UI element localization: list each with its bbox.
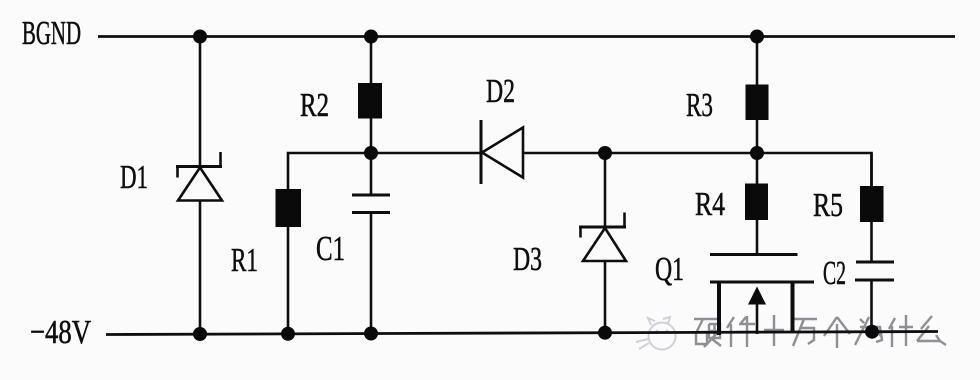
svg-text:R3: R3 xyxy=(686,87,713,124)
junction dot mid rail / D3 xyxy=(598,146,612,160)
junction dot bottom rail / D1 xyxy=(193,327,207,341)
wire R5 bottom to C2 xyxy=(870,222,873,262)
svg-text:−48V: −48V xyxy=(30,314,91,351)
svg-text:R5: R5 xyxy=(813,187,843,224)
wire C1 bottom xyxy=(370,213,373,336)
zener diode D1 xyxy=(176,152,222,201)
svg-text:R4: R4 xyxy=(695,186,725,223)
junction dot top rail / R2 xyxy=(364,30,378,44)
wire R3 top xyxy=(756,37,759,86)
wire D1 column lower xyxy=(199,200,202,335)
svg-text:D1: D1 xyxy=(120,159,148,196)
svg-text:R2: R2 xyxy=(300,87,329,124)
junction dot bottom rail / C1 xyxy=(364,327,378,341)
wire C2 bottom xyxy=(870,280,873,333)
wire D3 top xyxy=(604,153,607,227)
wire D1 column upper xyxy=(199,37,202,168)
wire R4 bottom to Q1 gate xyxy=(756,220,759,255)
capacitor C1 xyxy=(352,195,390,213)
watermark text 硬件十万个为什么 (simplified strokes) xyxy=(694,315,946,348)
wire R2 bottom to mid node xyxy=(370,118,373,153)
svg-text:Q1: Q1 xyxy=(655,251,684,288)
junction dot mid rail / R2-C1 xyxy=(364,146,378,160)
junction dot bottom rail / R1 xyxy=(281,327,295,341)
resistor R1 xyxy=(276,189,302,227)
wire -48V bottom rail xyxy=(106,332,938,335)
svg-text:R1: R1 xyxy=(231,242,258,279)
junction dot top rail / R3 xyxy=(750,30,764,44)
svg-text:D2: D2 xyxy=(486,73,515,110)
transistor Q1 xyxy=(710,255,814,336)
wire R5 top xyxy=(870,153,873,187)
capacitor C2 xyxy=(855,262,894,280)
svg-text:C1: C1 xyxy=(316,229,345,268)
junction dot mid rail / R3-R4 xyxy=(750,146,764,160)
wire R3 bottom to mid node xyxy=(756,120,759,153)
svg-text:C2: C2 xyxy=(823,255,846,292)
zener diode D3 xyxy=(579,213,626,262)
wire R1 bottom xyxy=(287,227,290,335)
svg-text:BGND: BGND xyxy=(22,15,81,52)
watermark logo (cat face) xyxy=(636,317,676,350)
junction dot bottom rail / D3 xyxy=(598,326,612,340)
wire R2 top xyxy=(370,37,373,85)
wire mid rail left segment xyxy=(288,153,481,189)
wire D3 bottom xyxy=(604,261,607,334)
resistor R2 xyxy=(358,83,382,119)
junction dot top rail / D1 xyxy=(193,30,207,44)
wire R4 top xyxy=(756,153,759,184)
resistor R4 xyxy=(745,184,768,221)
svg-text:D3: D3 xyxy=(513,241,542,278)
diode D2 xyxy=(481,120,523,184)
wire mid rail right segment xyxy=(523,153,872,187)
wire C1 top xyxy=(370,153,373,195)
wire BGND top rail xyxy=(98,35,955,38)
resistor R5 xyxy=(860,186,884,222)
resistor R3 xyxy=(746,85,769,121)
junction dot bottom rail / C2 xyxy=(865,325,879,339)
